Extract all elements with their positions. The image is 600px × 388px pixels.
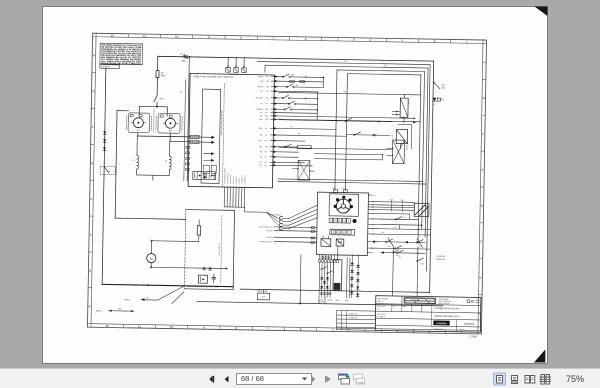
resistor R2 horizontal component	[297, 145, 312, 148]
svg-text:T8: T8	[260, 157, 262, 159]
control unit A2 POWER AND CONTROL UNIT PUMP	[184, 210, 234, 290]
svg-text:P16: P16	[266, 81, 269, 83]
svg-text:LEFT BRAKE B11: LEFT BRAKE B11	[259, 225, 273, 228]
motor M2 right traction motor	[156, 113, 182, 133]
wire row 1.5 long	[371, 232, 431, 235]
wire reference arrow second diagonal	[172, 292, 184, 304]
svg-text:P7: P7	[261, 103, 263, 105]
wire reference arrow W9a	[124, 285, 184, 302]
svg-text:A2: A2	[432, 103, 434, 106]
diode chain D6-D10 column 2	[356, 255, 360, 298]
svg-text:P11: P11	[265, 109, 268, 111]
wire row +15 long	[371, 226, 431, 230]
svg-text:PNK: PNK	[259, 119, 264, 121]
wire row HW into A3	[266, 230, 317, 233]
svg-text:H1: H1	[441, 99, 444, 101]
svg-text:P7: P7	[265, 103, 267, 105]
wire F2 to switch S18	[156, 78, 158, 96]
svg-text:L2: L2	[165, 160, 168, 162]
toolbar: previous view button	[337, 369, 351, 388]
svg-text:E: E	[338, 230, 340, 234]
fuse box F3 F4 F5	[226, 58, 247, 77]
svg-text:A7: A7	[262, 296, 266, 299]
wire lower circuit bottom edge	[240, 289, 429, 292]
wire row 14T15 with arrows and switch S17	[371, 239, 425, 249]
svg-text:PRN B9: PRN B9	[266, 237, 272, 239]
switch S1b in dashed box	[100, 166, 115, 174]
wire bottom bus left circuit	[102, 283, 233, 287]
svg-text:8: 8	[330, 220, 332, 223]
svg-text:8: 8	[339, 220, 341, 223]
diode V3 on left bus	[103, 147, 106, 150]
text note N1 (wiring legend)	[100, 43, 143, 66]
svg-text:SPEED: SPEED	[405, 145, 407, 151]
wire bus from A1 bottom pins to lower connectors	[224, 205, 278, 225]
connector X1 4-pin	[190, 135, 199, 138]
switch S20 S21 on bundle columns	[321, 267, 333, 275]
svg-text:60A: 60A	[161, 74, 165, 77]
svg-text:P6: P6	[261, 112, 263, 114]
wire row HYDRAULIC PLT into A3	[259, 240, 316, 244]
svg-text:DATUM NAME: DATUM NAME	[438, 298, 448, 301]
svg-text:S4: S4	[388, 246, 390, 248]
A3 top pin stubs 14T1 4T1	[332, 188, 348, 193]
wire row with switch S10 and diode	[279, 128, 390, 137]
svg-text:24: 24	[298, 133, 300, 135]
svg-text:BLATT 1: BLATT 1	[459, 328, 465, 331]
svg-text:1.5: 1.5	[344, 61, 347, 63]
svg-text:a AEND. 312: a AEND. 312	[349, 312, 358, 315]
svg-text:PEDAL: PEDAL	[327, 299, 332, 302]
display TEXT window	[330, 229, 355, 235]
wire loop upper right run 2	[254, 59, 431, 271]
wire ground return bus bottom	[197, 253, 444, 307]
arrow sheet ref right of MOSFETs	[204, 152, 215, 162]
svg-text:P2: P2	[265, 128, 267, 130]
svg-text:LEFT BRAKE: LEFT BRAKE	[271, 213, 282, 216]
svg-text:T12: T12	[264, 165, 267, 167]
svg-text:T14: T14	[266, 91, 269, 93]
wire inductor bottom link	[137, 175, 170, 181]
wire W1 battery positive top bus	[158, 54, 434, 62]
svg-text:8: 8	[335, 220, 337, 223]
svg-text:A: A	[89, 305, 91, 309]
svg-text:CODE 59-02: CODE 59-02	[257, 291, 268, 293]
svg-text:H3 (BL-W): H3 (BL-W)	[436, 259, 445, 261]
inline connector pair X6	[311, 227, 315, 244]
svg-text:P17: P17	[266, 76, 269, 78]
wire long horizontal pair mid sheet	[278, 179, 426, 184]
svg-text:7.5: 7.5	[180, 92, 183, 94]
svg-text:M: M	[150, 257, 153, 261]
svg-text:12: 12	[105, 324, 109, 328]
svg-text:RED: RED	[259, 128, 264, 130]
svg-text:GY: GY	[260, 116, 263, 118]
svg-text:F: F	[482, 132, 484, 136]
wire row B5 with switch	[371, 245, 431, 250]
toolbar: next page button (disabled)	[310, 369, 320, 388]
MOSFET module T1	[193, 171, 204, 179]
svg-text:C2 PRIMARY B: C2 PRIMARY B	[226, 173, 229, 184]
toolbar: continuous facing view button	[539, 369, 551, 388]
svg-text:S18: S18	[159, 98, 164, 100]
svg-text:S2: S2	[296, 85, 298, 87]
svg-text:VERT. GLTG: VERT. GLTG	[377, 314, 386, 316]
svg-text:10: 10	[175, 35, 179, 39]
svg-text:GN/YE: GN/YE	[258, 76, 264, 78]
toolbar: next view button (disabled)	[352, 369, 366, 388]
wire long row P10 to right margin	[317, 120, 420, 122]
svg-text:+1.5: +1.5	[372, 195, 375, 197]
wire bundle A3 to horn unit	[372, 199, 415, 211]
wire labels H2 BL-W	[436, 256, 445, 261]
capacitor C1 inside pump unit	[212, 274, 216, 283]
A3 right edge pin stubs with labels	[367, 195, 377, 254]
wire W3 horizontal run to pump unit	[115, 218, 185, 219]
toolbar: first page button	[208, 369, 218, 388]
fuse F6 inside pump circuit	[197, 220, 201, 242]
motor M1 left traction motor	[126, 113, 152, 133]
svg-text:C3 SEAT SW: C3 SEAT SW	[229, 174, 232, 184]
svg-text:ERS. F.: ERS. F.	[377, 301, 383, 303]
wire row LEFT BRAKE into A3	[259, 225, 317, 229]
svg-text:HYDRAULIC PLT: HYDRAULIC PLT	[259, 240, 272, 243]
switch S18	[154, 95, 164, 106]
svg-text:C298E: C298E	[469, 334, 477, 338]
svg-text:4: 4	[291, 126, 292, 128]
toolbar: last page button (disabled)	[324, 369, 334, 388]
svg-text:H: H	[93, 53, 95, 57]
svg-text:C6 +BAT: C6 +BAT	[238, 178, 241, 184]
svg-text:P9: P9	[260, 151, 262, 153]
svg-text:GEW.: GEW.	[403, 306, 408, 308]
diode V4 with indicator on right margin bus	[432, 98, 444, 107]
svg-text:C4 ACCEL: C4 ACCEL	[232, 177, 235, 185]
svg-text:14 T1: 14 T1	[332, 188, 336, 190]
relay K3 inside A3	[321, 236, 331, 247]
svg-text:H2 (BL-W): H2 (BL-W)	[436, 256, 445, 258]
svg-text:X: X	[343, 230, 345, 234]
svg-text:GREEN: GREEN	[256, 109, 263, 111]
svg-text:T12: T12	[259, 165, 262, 167]
svg-text:C1 A: C1 A	[258, 139, 263, 142]
inductor L1	[132, 136, 139, 175]
svg-text:T14: T14	[260, 91, 263, 93]
svg-text:8: 8	[348, 220, 350, 223]
wire long row P12 to right margin	[317, 116, 415, 119]
A1 right connector pins P17-P2 with wire colour labels	[254, 75, 278, 167]
page corner fold mark top right	[535, 7, 548, 17]
speed regulator module A4 with cross	[386, 140, 407, 164]
svg-text:K2: K2	[392, 134, 394, 137]
arrow to sheet ref from X2	[199, 140, 215, 143]
svg-text:WIRING DIAGRAM 230 V: WIRING DIAGRAM 230 V	[434, 315, 460, 318]
wire M1 output to connector X1	[138, 133, 190, 137]
arrow to sheet ref from X1	[199, 135, 215, 138]
svg-text:LANSING: LANSING	[436, 322, 447, 325]
diode V5 V6 inside pump unit	[202, 267, 211, 270]
inductor L2	[165, 141, 172, 175]
svg-text:4 T1: 4 T1	[341, 188, 344, 190]
svg-text:B: B	[89, 269, 91, 273]
svg-text:P12: P12	[265, 116, 268, 118]
svg-text:C1 SYSTEM RUNNING: C1 SYSTEM RUNNING	[224, 167, 226, 184]
svg-text:50A: 50A	[441, 86, 445, 89]
svg-text:BN: BN	[260, 135, 263, 137]
wire M2 output to connector X2	[170, 133, 190, 142]
wire from top bus down through F2	[157, 56, 159, 70]
svg-text:S14: S14	[396, 255, 399, 257]
toolbar: continuous view button	[509, 369, 520, 388]
svg-text:E: E	[481, 168, 483, 172]
svg-text:b AEND. 315: b AEND. 315	[349, 316, 358, 319]
svg-text:GEPR. KROHM: GEPR. KROHM	[438, 303, 449, 305]
svg-text:S1b: S1b	[107, 171, 111, 173]
svg-text:M1: M1	[137, 130, 141, 132]
A1 bottom pins C1-C8 with vertical signal labels	[224, 167, 247, 207]
svg-text:YELLOW: YELLOW	[255, 97, 263, 99]
svg-text:P6: P6	[265, 112, 267, 114]
svg-text:+1.5: +1.5	[381, 232, 384, 234]
resistor ladder R1 vertical box	[333, 246, 342, 291]
svg-text:STROMLAUFPLAN 230 V: STROMLAUFPLAN 230 V	[434, 307, 460, 310]
revision table rows left of title block	[336, 310, 375, 330]
relay K5 box with cross bracing	[292, 160, 314, 180]
svg-text:P3: P3	[264, 162, 266, 164]
toolbar: zoom level	[566, 373, 584, 385]
diode chain D1-D5 column 1	[350, 255, 354, 298]
svg-text:BK/YE: BK/YE	[258, 86, 264, 88]
svg-text:10: 10	[170, 325, 174, 329]
switch chain S14 S15 lower right	[387, 238, 424, 296]
svg-text:POWER AND CONTROL UNIT PUMP: POWER AND CONTROL UNIT PUMP	[187, 285, 220, 289]
steering control unit A3 outer box	[316, 192, 368, 255]
svg-text:T8: T8	[264, 157, 266, 159]
svg-text:S15: S15	[421, 263, 424, 265]
svg-text:B1.5: B1.5	[390, 199, 393, 201]
toolbar: previous page button	[222, 369, 232, 388]
svg-text:K1: K1	[408, 100, 410, 103]
svg-text:S5: S5	[418, 246, 420, 248]
wire reference double arrow W1 15a	[96, 308, 135, 313]
svg-text:50A: 50A	[291, 74, 295, 77]
A1 lower pin row wires	[273, 126, 347, 167]
toolbar: single page view button (selected)	[493, 369, 506, 388]
svg-text:B: B	[480, 275, 482, 279]
svg-text:9a: 9a	[146, 297, 149, 299]
svg-text:ZEICHN.-NR.: ZEICHN.-NR.	[434, 329, 444, 331]
wire row PRN into A3	[266, 237, 316, 240]
svg-text:12: 12	[110, 34, 114, 38]
relay K1 with coil box	[392, 94, 410, 122]
svg-text:P3: P3	[260, 162, 262, 164]
svg-text:SEAT: SEAT	[335, 299, 339, 302]
svg-text:T10: T10	[259, 146, 262, 148]
diode V2 on left bus	[103, 139, 106, 142]
svg-text:MOD. 25 (075): MOD. 25 (075)	[377, 298, 388, 300]
svg-text:F4: F4	[235, 66, 237, 68]
wire loop upper right run 1	[430, 61, 434, 292]
svg-text:C5 BRAKE: C5 BRAKE	[235, 177, 238, 185]
wire row B7 with drop	[371, 223, 422, 229]
svg-text:L1: L1	[132, 160, 135, 162]
svg-text:T15: T15	[266, 86, 269, 88]
diode V1 on left bus	[103, 131, 106, 134]
svg-text:GEZ. 10.02.95 RS: GEZ. 10.02.95 RS	[438, 301, 450, 303]
drawing frame with zone rulers	[87, 33, 486, 338]
pump motor M3	[147, 240, 157, 268]
svg-text:TRACTION CONTROL BOARD: TRACTION CONTROL BOARD	[220, 109, 223, 135]
fuse F2 60A	[156, 71, 165, 78]
svg-text:F5: F5	[243, 66, 245, 68]
svg-text:T: T	[333, 230, 335, 234]
wire W3 second left vertical	[115, 111, 129, 219]
svg-text:T: T	[348, 230, 350, 234]
wire pump motor feed	[151, 241, 228, 270]
control unit A1 internal power board	[201, 89, 221, 183]
wire motor top header	[139, 106, 167, 116]
wire loop run 4 to steering unit	[334, 70, 424, 229]
svg-text:11: 11	[138, 325, 142, 329]
svg-text:TOL.: TOL.	[393, 306, 397, 308]
horn unit H2 box with cross	[414, 203, 429, 216]
svg-text:4220014: 4220014	[464, 322, 475, 326]
node J1 motor supply junction	[154, 106, 158, 133]
svg-text:HW B10: HW B10	[266, 230, 272, 232]
switch S11 on right margin bus	[433, 82, 446, 90]
svg-text:8: 8	[343, 220, 345, 223]
wire W2 left vertical bus	[102, 68, 106, 284]
wire row B8 with switch S16	[371, 216, 418, 220]
svg-text:P9: P9	[265, 152, 267, 154]
svg-text:H: H	[483, 60, 485, 64]
svg-text:P10: P10	[265, 119, 268, 121]
svg-text:C8 SPEED 2: C8 SPEED 2	[244, 175, 246, 184]
wire loop run 5 to steering unit	[344, 74, 420, 244]
connector X2 4-pin	[190, 141, 199, 144]
wire row T6 with drop	[371, 213, 409, 218]
relay K2 coil below K1	[392, 129, 408, 148]
svg-text:BRAKE: BRAKE	[318, 298, 323, 301]
svg-text:POSITION OF THE CIRCUIT: POSITION OF THE CIRCUIT	[101, 63, 142, 66]
svg-text:WIRE 2: WIRE 2	[124, 299, 130, 301]
svg-text:1.5: 1.5	[384, 65, 387, 67]
svg-text:T4: T4	[265, 135, 267, 137]
relay K4 inside A3	[336, 239, 344, 246]
svg-text:P5: P5	[265, 140, 267, 142]
A3 bottom pin stubs	[319, 255, 339, 263]
MOSFET module T3 inside pump unit	[198, 275, 207, 283]
svg-text:1:1: 1:1	[377, 308, 379, 310]
title block	[375, 296, 481, 333]
wire mid horizontal pair to right margin	[279, 90, 421, 95]
fuse F1 50A on top bus	[182, 55, 188, 62]
svg-text:WH: WH	[260, 81, 264, 83]
svg-text:WIRE-1: WIRE-1	[96, 310, 102, 312]
svg-text:T10: T10	[265, 146, 268, 148]
wire loop upper right run 3	[262, 63, 428, 237]
label box A220614	[100, 65, 120, 69]
svg-text:15a: 15a	[118, 308, 122, 310]
svg-text:C7 SPEED 1: C7 SPEED 1	[242, 175, 244, 184]
svg-text:B6: B6	[371, 252, 373, 254]
svg-text:11: 11	[143, 34, 147, 38]
svg-text:X5: X5	[279, 219, 281, 221]
wire W4 top bus to pump unit feed	[178, 56, 190, 181]
seven segment display DS1	[329, 218, 356, 223]
svg-text:S6: S6	[399, 256, 401, 258]
wire row with switch S9	[279, 117, 417, 149]
svg-text:B1.5: B1.5	[401, 200, 404, 202]
svg-text:a4: a4	[403, 217, 405, 219]
svg-text:F: F	[92, 125, 94, 129]
wire rows mid right to relay K1 area	[278, 148, 391, 160]
svg-text:M2: M2	[169, 130, 173, 132]
page corner fold mark bottom right	[534, 350, 545, 363]
svg-text:+1.5: +1.5	[393, 227, 396, 229]
bus vertical right of switch group	[316, 77, 324, 121]
switch group S2-S6 on A1 upper pin rows	[274, 73, 324, 120]
wire bundle below relays	[318, 257, 350, 304]
svg-text:P13: P13	[265, 98, 268, 100]
diodes on bundle columns	[320, 277, 329, 289]
toolbar: facing pages view button	[524, 369, 536, 388]
svg-text:F3: F3	[227, 66, 229, 68]
toolbar: page number box	[236, 373, 312, 385]
connector marks on bundle columns	[321, 257, 332, 295]
control unit A1 POWER AND CONTROL UNIT TRACTION	[188, 73, 274, 187]
connector X5 multipoint	[270, 204, 317, 230]
wire row B6 with arrow and switch S19	[380, 250, 425, 259]
svg-text:BATT: BATT	[345, 299, 349, 302]
svg-text:E: E	[91, 161, 93, 165]
steering wheel sensor with indicator LEDs	[329, 194, 359, 217]
code label CODE 59-02	[256, 289, 269, 300]
switch S8 on row P9	[284, 144, 291, 148]
svg-text:0.5: 0.5	[344, 91, 347, 93]
svg-text:50A: 50A	[182, 60, 186, 63]
wire harness vertical with inline connectors	[185, 75, 190, 181]
svg-text:PUMP CONTROL: PUMP CONTROL	[219, 242, 221, 255]
MOSFET module T2	[205, 172, 216, 180]
